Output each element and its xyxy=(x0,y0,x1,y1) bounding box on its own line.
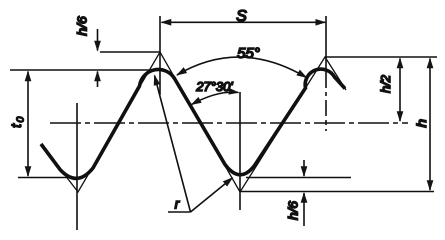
horizontal centerline xyxy=(50,122,408,124)
sharp crest line right (apex level) xyxy=(325,56,437,58)
sharp crest line left (apex level) xyxy=(100,51,160,53)
root line left (t0 bottom) xyxy=(18,177,80,179)
t0 dimension xyxy=(27,72,29,177)
r leader to crest radius xyxy=(155,76,191,213)
svg-text:h/6: h/6 xyxy=(286,201,300,220)
27deg30 arc xyxy=(192,92,239,104)
h/6 top dimension lower segment xyxy=(97,72,99,88)
svg-text:S: S xyxy=(236,8,247,25)
dimension S line xyxy=(162,21,326,23)
svg-text:h/6: h/6 xyxy=(75,16,89,36)
thin sharp V profile xyxy=(41,52,346,192)
h/6 top dimension upper segment xyxy=(97,29,99,51)
svg-text:27°30': 27°30' xyxy=(195,79,233,94)
sharp root line right xyxy=(241,191,434,193)
r underline xyxy=(168,211,191,213)
main root centerline / 27deg30 reference vertical xyxy=(239,92,241,210)
svg-text:55°: 55° xyxy=(237,45,260,62)
root rounding line right xyxy=(246,177,351,179)
h/6 bottom dimension lower segment xyxy=(303,193,305,226)
svg-text:h: h xyxy=(414,119,429,128)
thick thread profile xyxy=(41,69,345,178)
h/2 dimension xyxy=(399,59,401,122)
left crest centerline / S extension left xyxy=(159,16,161,95)
r leader to root radius xyxy=(191,178,233,212)
svg-text:h/2: h/2 xyxy=(379,75,393,93)
right crest centerline / S extension right xyxy=(325,16,327,131)
h dimension xyxy=(429,59,431,191)
svg-text:t0: t0 xyxy=(8,115,27,128)
left root centerline xyxy=(76,103,78,230)
55 degree arc xyxy=(177,57,307,77)
h/6 bottom dimension upper segment xyxy=(303,160,305,176)
crest truncation line left (h/6 below apex) xyxy=(10,69,165,71)
svg-text:r: r xyxy=(175,196,181,212)
